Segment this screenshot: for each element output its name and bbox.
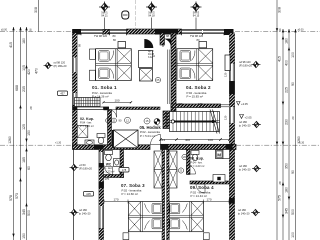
- svg-text:D: D: [152, 55, 156, 57]
- svg-text:od 180: od 180: [239, 164, 247, 168]
- svg-text:308: 308: [278, 7, 282, 13]
- svg-text:235: 235: [22, 86, 26, 92]
- svg-text:143: 143: [160, 138, 165, 142]
- room label 02 Kup: [80, 117, 94, 128]
- bathroom03 toilet: [105, 151, 113, 161]
- svg-text:94.21: 94.21: [101, 13, 108, 17]
- svg-text:345: 345: [284, 208, 288, 214]
- svg-text:ip 140+20: ip 140+20: [239, 124, 251, 128]
- closet left of party wall: [154, 151, 162, 188]
- svg-text:20: 20: [291, 116, 295, 120]
- svg-text:500: 500: [291, 209, 295, 215]
- svg-text:P = 14.26 m²: P = 14.26 m²: [92, 95, 109, 99]
- tag circle 05: [155, 77, 160, 82]
- centerline dashed vertical top: [135, 0, 137, 30]
- bathroom03 walls: [104, 150, 124, 178]
- svg-text:TW 98 120: TW 98 120: [190, 34, 204, 38]
- svg-text:(P) 180+20: (P) 180+20: [54, 64, 67, 68]
- svg-text:od 180: od 180: [79, 208, 87, 212]
- svg-text:688: 688: [15, 85, 19, 91]
- svg-text:575: 575: [278, 195, 282, 201]
- dim line above bed09: [204, 200, 230, 204]
- door arc bathroom02: [109, 110, 117, 118]
- left exterior wall: [73, 33, 78, 149]
- svg-text:09. Soba 4: 09. Soba 4: [190, 185, 214, 190]
- svg-text:308: 308: [34, 7, 38, 13]
- bathroom08 walls: [187, 150, 230, 185]
- svg-text:573: 573: [15, 193, 19, 199]
- dashed reference line mid: [0, 144, 320, 146]
- svg-text:P = 15.83 m²: P = 15.83 m²: [187, 95, 204, 99]
- interior dim texts room2: [161, 38, 200, 47]
- dim row under stairs with ticks: [159, 138, 231, 141]
- desk room2: [225, 55, 230, 71]
- door arc hall: [151, 135, 161, 145]
- bed room07: [128, 202, 162, 232]
- small label box A2: [119, 168, 129, 173]
- right bottom marker: [238, 208, 260, 216]
- svg-text:+0.50: +0.50: [79, 163, 86, 167]
- bed room2: [177, 49, 213, 81]
- bathroom02 partition wall: [108, 110, 112, 145]
- svg-text:+2.05: +2.05: [241, 102, 248, 106]
- svg-text:230: 230: [284, 119, 288, 125]
- window right wall 1: [231, 64, 234, 82]
- svg-text:415: 415: [9, 42, 13, 48]
- svg-text:120: 120: [224, 115, 228, 120]
- svg-text:90: 90: [291, 170, 295, 174]
- room label 03 WC: [101, 163, 115, 174]
- staircase right: [170, 110, 220, 134]
- svg-text:150: 150: [22, 233, 26, 239]
- svg-text:P = 3.23 m²: P = 3.23 m²: [101, 169, 115, 173]
- furniture edge line party wall: [167, 50, 169, 105]
- svg-text:100: 100: [208, 138, 213, 142]
- svg-text:170: 170: [113, 198, 118, 202]
- svg-text:400: 400: [284, 60, 288, 66]
- svg-text:100: 100: [291, 52, 295, 58]
- svg-text:02. Kup.: 02. Kup.: [80, 117, 94, 121]
- party wall upper: [160, 33, 176, 111]
- survey marker T3: [191, 2, 202, 30]
- svg-text:od 180: od 180: [238, 208, 246, 212]
- window top-left 1: [81, 31, 103, 33]
- dim 100 room1: [102, 101, 132, 103]
- bathroom08 cabinet box: [223, 150, 230, 159]
- small label box A1: [58, 91, 68, 96]
- bathroom02 shower: [77, 126, 88, 138]
- svg-text:437: 437: [60, 92, 65, 96]
- room label 07 Soba 3: [121, 183, 145, 196]
- svg-text:28: 28: [278, 181, 282, 185]
- closet right of party wall: [169, 151, 177, 188]
- terrace edge line: [73, 148, 75, 240]
- svg-text:125: 125: [22, 124, 26, 130]
- svg-text:80: 80: [113, 34, 116, 38]
- bathroom03 sink: [114, 159, 121, 167]
- tiny text block apt2: [148, 50, 155, 59]
- svg-text:P.04 - ker.: P.04 - ker.: [80, 121, 92, 125]
- svg-text:ip 140+20: ip 140+20: [79, 212, 91, 216]
- svg-text:P.04 - ker.: P.04 - ker.: [101, 166, 113, 170]
- right chain tick arrows: [276, 28, 297, 218]
- nightstand room1 left bottom: [90, 70, 96, 80]
- right window marker + text: [239, 60, 261, 68]
- capsule symbol top: [122, 11, 129, 19]
- left chain labels (rotated): [8, 7, 39, 239]
- window left wall 1: [74, 58, 76, 73]
- door tags circles hallway: [106, 117, 187, 173]
- washing machine M: [216, 150, 224, 159]
- room label 05 Hodnik: [140, 125, 162, 138]
- room label 09 Soba 4: [190, 185, 214, 198]
- window lower-left wall lower: [100, 206, 102, 228]
- right chain labels (rotated): [278, 7, 301, 238]
- lower-left exterior wall: [99, 150, 104, 240]
- door arc room1: [144, 39, 153, 48]
- left window marker + text: [44, 61, 67, 69]
- dim line above bed07: [104, 200, 128, 204]
- right dimension chain lines: [277, 0, 296, 240]
- dims under stairs: [160, 102, 213, 142]
- door arc bathroom03: [105, 167, 113, 175]
- svg-text:(P) 180+20: (P) 180+20: [239, 64, 252, 68]
- bathroom02 toilet: [97, 134, 105, 144]
- svg-text:+1.30: +1.30: [298, 142, 305, 145]
- party wall lower (double): [162, 111, 176, 240]
- svg-text:04. Soba 2: 04. Soba 2: [186, 85, 211, 90]
- desk room1: [139, 51, 153, 82]
- svg-text:98 120: 98 120: [166, 34, 175, 38]
- wall below room2 / above stairs: [171, 104, 221, 108]
- level mark right wall upper: [237, 102, 249, 107]
- interior dim texts room1: [78, 38, 157, 57]
- svg-text:350: 350: [284, 163, 288, 169]
- room label 08 Kup: [190, 157, 205, 168]
- door arc bathroom08: [187, 165, 196, 174]
- svg-text:578: 578: [9, 195, 13, 201]
- svg-text:28: 28: [29, 106, 33, 110]
- svg-text:225: 225: [284, 87, 288, 93]
- left terrace marker1: [70, 163, 93, 171]
- window top-left 2: [110, 31, 127, 33]
- svg-text:170: 170: [206, 198, 211, 202]
- section flag filled: [154, 119, 160, 125]
- svg-text:180: 180: [284, 38, 288, 44]
- svg-text:M: M: [217, 153, 221, 158]
- door opening room2 south: [221, 105, 230, 107]
- window top-right 1: [182, 31, 203, 33]
- svg-text:P = 4.23 m²: P = 4.23 m²: [191, 164, 205, 168]
- svg-text:od 98 120: od 98 120: [54, 61, 66, 65]
- room label 04 Soba 2: [186, 85, 211, 99]
- svg-text:470: 470: [34, 68, 38, 74]
- nightstand room1: [118, 42, 126, 48]
- svg-text:500: 500: [27, 210, 31, 216]
- svg-text:100: 100: [291, 232, 295, 238]
- svg-text:345: 345: [22, 209, 26, 215]
- room label 01 Soba 1: [92, 85, 117, 99]
- survey marker T2: [146, 2, 157, 30]
- bed room1: [96, 49, 132, 81]
- svg-text:205: 205: [178, 102, 183, 106]
- svg-text:(P) 180+20: (P) 180+20: [79, 167, 92, 171]
- level triangle right wall: [240, 115, 253, 120]
- svg-text:P = 14.44 m²: P = 14.44 m²: [191, 194, 208, 198]
- svg-text:60: 60: [27, 166, 31, 170]
- wall below room1: [73, 107, 161, 111]
- svg-text:94.15: 94.15: [193, 13, 200, 17]
- svg-text:od 98 120: od 98 120: [239, 60, 251, 64]
- svg-text:±0.00: ±0.00: [298, 28, 305, 31]
- svg-text:415: 415: [278, 56, 282, 62]
- bathroom02 sink: [85, 140, 94, 145]
- window lower-left wall upper: [100, 152, 102, 163]
- window right wall 2: [231, 107, 234, 123]
- svg-text:120: 120: [224, 72, 228, 77]
- svg-text:ip 140+20: ip 140+20: [238, 212, 250, 216]
- svg-text:01. Soba 1: 01. Soba 1: [92, 85, 117, 90]
- svg-text:P = 4.20 m²: P = 4.20 m²: [80, 124, 94, 128]
- ticks under top wall: [81, 33, 224, 35]
- svg-text:±0.00: ±0.00: [1, 28, 8, 31]
- nightstand room1 left top: [90, 49, 96, 59]
- nightstand room2: [199, 42, 207, 48]
- svg-text:07. Soba 3: 07. Soba 3: [121, 183, 145, 188]
- left terrace marker2: [70, 208, 92, 216]
- window left wall 2: [74, 93, 76, 105]
- svg-text:94.18: 94.18: [148, 13, 155, 17]
- bathroom08 sink unit: [213, 175, 225, 183]
- nightstand room07: [123, 233, 129, 240]
- svg-text:A05: A05: [86, 192, 91, 196]
- svg-text:od 180: od 180: [239, 120, 247, 124]
- bathroom08 toilet: [191, 151, 199, 161]
- survey marker T1: [99, 2, 110, 30]
- svg-text:180: 180: [22, 38, 26, 44]
- svg-text:180: 180: [198, 102, 203, 106]
- svg-text:90: 90: [291, 82, 295, 86]
- svg-text:400: 400: [185, 138, 190, 142]
- door arc room2: [162, 39, 171, 48]
- right mid marker2: [239, 164, 261, 172]
- right mid marker1: [239, 120, 261, 128]
- svg-text:1260: 1260: [8, 136, 12, 144]
- left chain tick arrows: [12, 27, 27, 237]
- svg-text:08. Kup.: 08. Kup.: [190, 157, 204, 161]
- svg-text:03. WC: 03. WC: [101, 163, 112, 167]
- svg-text:+2.05: +2.05: [245, 116, 253, 120]
- svg-text:TW 98 120: TW 98 120: [94, 34, 108, 38]
- door arc room09: [196, 184, 205, 193]
- bed room09: [169, 202, 203, 232]
- svg-text:420: 420: [27, 69, 31, 75]
- svg-text:150: 150: [27, 130, 31, 136]
- stairwell void X-box left: [112, 130, 138, 148]
- svg-text:36: 36: [278, 28, 282, 32]
- nightstand room09: [203, 233, 209, 240]
- small label box A3: [84, 192, 94, 197]
- svg-text:178: 178: [122, 168, 127, 172]
- svg-text:P = 14.60 m²: P = 14.60 m²: [122, 192, 139, 196]
- svg-text:36: 36: [29, 28, 33, 32]
- left dimension chain lines: [14, 0, 39, 240]
- svg-text:P = 5.01 m²: P = 5.01 m²: [140, 134, 155, 138]
- svg-text:180: 180: [284, 187, 288, 193]
- svg-text:P.04 - ker.: P.04 - ker.: [191, 160, 203, 164]
- dashed reference line upper: [0, 31, 320, 33]
- mid horizontal wall: [73, 144, 237, 149]
- svg-text:100: 100: [114, 99, 119, 103]
- window top-right 2: [203, 31, 224, 33]
- svg-text:185: 185: [22, 157, 26, 163]
- svg-text:+1.30: +1.30: [55, 142, 62, 145]
- dim text under window right-wall: [224, 72, 228, 120]
- top wall band: [73, 29, 234, 35]
- svg-text:105: 105: [22, 65, 26, 71]
- svg-text:ip 140+20: ip 140+20: [239, 168, 251, 172]
- right exterior wall: [229, 33, 235, 240]
- wardrobe room1: [75, 98, 101, 107]
- svg-text:175: 175: [105, 177, 110, 181]
